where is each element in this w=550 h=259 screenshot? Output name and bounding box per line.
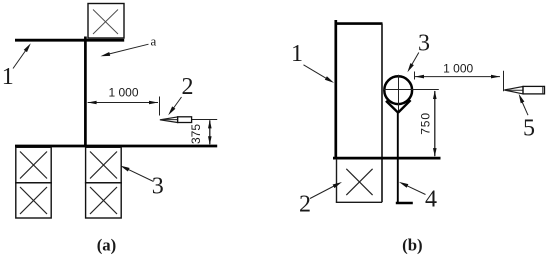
dimension 375 vertical	[208, 120, 212, 145]
diffuser box right column upper	[86, 147, 122, 183]
chamber left wall	[334, 20, 337, 159]
leader arrow to label 4 (b)	[398, 180, 425, 194]
leader arrow to label 2 (a)	[167, 97, 182, 116]
leader arrow to label 1 (b)	[304, 65, 336, 85]
dimension line 1000 (a)	[88, 101, 158, 105]
circle centerline vertical	[398, 75, 400, 111]
duct drop line	[397, 113, 399, 203]
leader arrow to label 1	[13, 42, 32, 68]
diffuser box left column upper	[16, 147, 51, 183]
svg-text:(a): (a)	[97, 235, 117, 254]
dimension line 1000 (b)	[415, 75, 500, 79]
svg-text:3: 3	[418, 30, 430, 56]
leader arrow to label a	[100, 44, 148, 58]
leader arrow to label 3 (a)	[119, 164, 153, 182]
funnel cone left side	[386, 101, 398, 113]
svg-text:1 000: 1 000	[108, 86, 138, 100]
svg-text:a: a	[151, 33, 157, 48]
microphone probe 5	[504, 86, 544, 94]
svg-text:1: 1	[2, 64, 14, 90]
leader arrow to label 2 (b)	[310, 180, 343, 198]
diffuser box left column lower	[16, 183, 51, 218]
duct lower horizontal line (a)	[15, 145, 217, 148]
diffuser box right column lower	[86, 183, 122, 218]
fan X-box (b)	[336, 159, 382, 202]
circle centerline horizontal	[383, 89, 439, 91]
funnel cone right side	[398, 100, 411, 112]
probe reference line	[192, 119, 217, 121]
svg-text:750: 750	[418, 112, 432, 135]
extension line right (b)	[503, 71, 505, 91]
fan box top (X-box)	[88, 4, 124, 39]
leader arrow to label 5 (b)	[517, 93, 528, 115]
svg-text:1: 1	[291, 41, 303, 67]
chamber top wall	[335, 22, 383, 25]
leader arrow to label 3 (b)	[406, 53, 419, 74]
microphone probe 2	[160, 117, 192, 123]
mid horizontal line (b)	[333, 157, 441, 160]
extension line left (b)	[414, 72, 416, 80]
svg-text:4: 4	[425, 187, 437, 213]
svg-text:2: 2	[182, 74, 194, 100]
duct top horizontal line	[15, 39, 124, 42]
svg-text:3: 3	[152, 173, 164, 199]
svg-text:2: 2	[299, 192, 311, 218]
svg-text:1 000: 1 000	[443, 61, 473, 75]
extension line right (a)	[159, 97, 161, 116]
svg-text:375: 375	[189, 124, 203, 144]
svg-text:(b): (b)	[402, 235, 423, 254]
bottom outlet stub	[396, 202, 413, 204]
svg-text:5: 5	[523, 115, 535, 141]
duct vertical line	[84, 37, 87, 148]
chamber right wall	[381, 24, 383, 203]
dimension 750 vertical	[433, 91, 437, 157]
sphere probe circle	[384, 76, 412, 104]
